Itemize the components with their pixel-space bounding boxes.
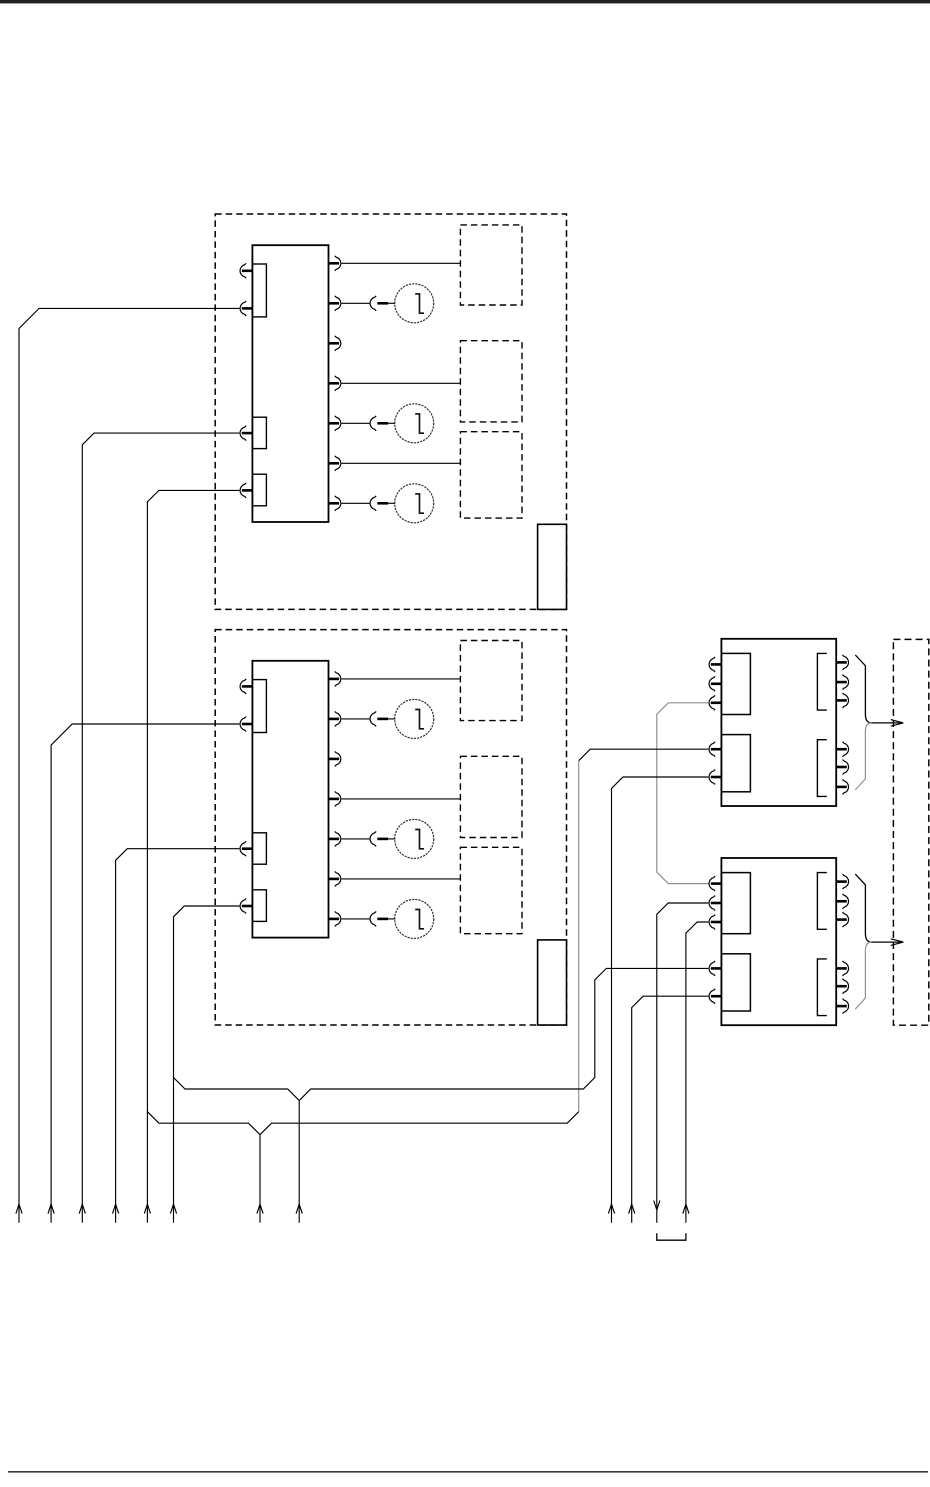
arrow 3 (to harness) [79, 1204, 85, 1213]
pin J2-3 (left) [240, 841, 252, 856]
pin K1-11 (right) [837, 779, 849, 794]
pin J2-7 (right) [329, 751, 341, 766]
connector J2 cavity group 1 [252, 680, 266, 733]
pin J2-2 (left) [240, 717, 252, 732]
wire J2-4 to harness (arrow 6) [174, 906, 240, 1223]
wire J1-3 to harness (arrow 3) [82, 433, 239, 1223]
connector J2 body [252, 661, 328, 938]
gauge unit 2B (dashed) [460, 756, 522, 837]
pin K1-5 (left) [709, 770, 721, 785]
wire J1-11 to lamp 13 [342, 502, 370, 504]
pin K2-10 (right) [837, 979, 849, 994]
pin K1-3 (left) [709, 695, 721, 710]
pin K1-10 (right) [837, 760, 849, 775]
wire J2-8 to unit 2B [342, 798, 461, 800]
lamp 23 (illumination) [370, 899, 434, 938]
relay K1 contact bracket 2 [817, 740, 826, 797]
pin K1-7 (right) [837, 675, 849, 690]
pin K2-9 (right) [837, 961, 849, 976]
page header bar [0, 0, 930, 3]
wire K1-5 to harness (arrow 9) [612, 777, 709, 1223]
lamp 12 (illumination) [370, 404, 434, 443]
gauge unit 2C (dashed) [460, 847, 522, 933]
arrow 4 (to harness) [113, 1204, 119, 1213]
pin J2-4 (left) [240, 899, 252, 914]
wire bus 2 drop (arrow 7) [259, 1135, 261, 1223]
pin K2-11 (right) [837, 999, 849, 1014]
pin J1-2 (left) [240, 301, 252, 316]
harness brace K1 (upper) [855, 655, 902, 723]
pin J2-6 (right) [329, 711, 341, 726]
wire J2-11 to lamp 23 [342, 918, 370, 920]
pin J2-9 (right) [329, 831, 341, 846]
wire J1-6 to lamp 11 [342, 302, 370, 304]
wire J2-3 to harness (arrow 4) [116, 849, 240, 1223]
connector J1 cavity group 3 [252, 474, 266, 506]
pin K2-2 (left) [709, 896, 721, 911]
arrow 2 (to harness) [48, 1204, 54, 1213]
pin K1-6 (right) [837, 655, 849, 670]
instrument cluster assembly 1 (dashed boundary) [215, 214, 566, 609]
harness arrowhead K2 [891, 939, 904, 946]
harness arrowhead K1 [891, 720, 904, 727]
lamp 22 (illumination) [370, 819, 434, 858]
relay K2 cavity group 1 [721, 873, 750, 934]
wire J2-6 to lamp 21 [342, 718, 370, 720]
relay K2 contact bracket 1 [817, 873, 826, 930]
arrow 8 (to harness) [296, 1204, 302, 1213]
pin K2-7 (right) [837, 894, 849, 909]
arrow 10 (to harness) [629, 1204, 635, 1213]
wire K2-3 to harness (arrow 12) [686, 922, 708, 1223]
printed circuit board block 1 (bottom-right label box) [538, 524, 567, 609]
wire bus 2 (to J1-4 junction, arrow 7) [147, 1112, 578, 1135]
pin J1-11 (right) [329, 496, 341, 511]
relay block K1 body [721, 639, 836, 806]
pin K1-8 (right) [837, 693, 849, 708]
wire J1-5 to unit 1A [342, 262, 461, 264]
lamp 11 (illumination) [370, 284, 434, 323]
wire J2-2 to harness (arrow 2) [51, 724, 239, 1223]
pin J1-9 (right) [329, 416, 341, 431]
lamp 13 (illumination) [370, 484, 434, 523]
harness brace K2 (upper) [855, 874, 902, 942]
arrow 6 (to harness) [170, 1204, 176, 1213]
pin J2-10 (right) [329, 871, 341, 886]
relay K1 cavity group 2 [721, 735, 750, 792]
page footer rule [8, 1471, 928, 1473]
pin J1-8 (right) [329, 376, 341, 391]
gauge unit 1A (dashed) [460, 225, 522, 305]
wire K2-2 to harness (arrow 11) [657, 903, 709, 1223]
wire J1-2 to harness (arrow 1) [19, 308, 239, 1222]
wire J1-9 to lamp 12 [342, 422, 370, 424]
pin K1-4 (left) [709, 742, 721, 757]
gauge unit 1C (dashed) [460, 432, 522, 518]
gauge unit 2A (dashed) [460, 641, 522, 721]
instrument cluster assembly 2 (dashed boundary) [215, 630, 566, 1025]
pin J2-11 (right) [329, 911, 341, 926]
pin J1-5 (right) [329, 256, 341, 271]
connector J2 cavity group 3 [252, 890, 266, 922]
pin K1-9 (right) [837, 742, 849, 757]
pin J2-1 (left) [240, 679, 252, 694]
relay K2 cavity group 2 [721, 954, 750, 1011]
connector J1 cavity group 1 [252, 264, 266, 317]
junction box (dashed boundary) [893, 639, 928, 1025]
pin K2-6 (right) [837, 874, 849, 889]
arrow 5 (to harness) [144, 1204, 150, 1213]
pin J2-5 (right) [329, 671, 341, 686]
wire J2-5 to unit 2A [342, 678, 461, 680]
printed circuit board block 2 (bottom-right label box) [538, 940, 567, 1025]
relay K1 cavity group 1 [721, 653, 750, 714]
arrow 9 (to harness) [608, 1204, 614, 1213]
pin J1-3 (left) [240, 426, 252, 441]
wire K1-4 feed (upper) [579, 749, 709, 761]
pin K2-3 (left) [709, 915, 721, 930]
relay K1 contact bracket 1 [817, 653, 826, 710]
pin J1-4 (left) [240, 483, 252, 498]
wire link K1-3 to K2-1 [657, 703, 709, 884]
wire J2-10 to unit 2C [342, 878, 461, 880]
wire J1-4 to harness (arrow 5) [147, 490, 239, 1222]
pin K2-4 (left) [709, 961, 721, 976]
wire J2-9 to lamp 22 [342, 838, 370, 840]
pin J2-8 (right) [329, 791, 341, 806]
connector J1 body [252, 245, 328, 522]
connector J1 cavity group 2 [252, 417, 266, 448]
pin K1-2 (left) [709, 676, 721, 691]
wire K2-5 to harness (arrow 10) [632, 996, 709, 1222]
arrow 1 (to harness) [16, 1204, 22, 1213]
pin J1-7 (right) [329, 336, 341, 351]
harness brace K2 (lower) [855, 942, 871, 1009]
lamp 21 (illumination) [370, 699, 434, 738]
harness brace K1 (lower) [855, 723, 871, 790]
pin K1-1 (left) [709, 657, 721, 672]
pin K2-8 (right) [837, 912, 849, 927]
arrow 7 (to harness) [257, 1204, 263, 1213]
wire J1-8 to unit 1B [342, 382, 461, 384]
wire K1-4 feed (vertical) [578, 761, 580, 1112]
connector J2 cavity group 2 [252, 833, 266, 864]
arrow 12 (to harness) [683, 1204, 689, 1213]
arrow 11 (from harness) [654, 1201, 660, 1210]
wire bus 1 drop (arrow 8) [298, 1101, 300, 1223]
relay K2 contact bracket 2 [817, 959, 826, 1016]
pin J1-1 (left) [240, 263, 252, 278]
wire J1-10 to unit 1C [342, 462, 461, 464]
pin K2-5 (left) [709, 989, 721, 1004]
pin J1-10 (right) [329, 456, 341, 471]
relay block K2 body [721, 858, 836, 1025]
wire bus 1 (K2-4 to J2-4 junction, arrow 8) [174, 968, 709, 1100]
pin K2-1 (left) [709, 876, 721, 891]
pin J1-6 (right) [329, 296, 341, 311]
connector group bracket (under arrows 11-12) [657, 1233, 686, 1240]
gauge unit 1B (dashed) [460, 341, 522, 422]
